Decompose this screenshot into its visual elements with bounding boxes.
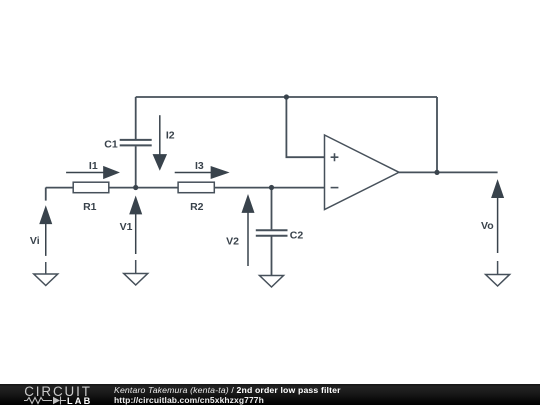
svg-text:C1: C1 [104,139,118,151]
svg-text:Vo: Vo [481,220,494,232]
svg-text:C2: C2 [290,230,304,242]
svg-text:V1: V1 [120,221,133,233]
svg-text:LAB: LAB [67,396,92,405]
svg-text:R1: R1 [83,201,97,213]
svg-text:Vi: Vi [30,235,40,247]
svg-text:I3: I3 [195,160,204,172]
svg-text:R2: R2 [190,201,204,213]
svg-text:V2: V2 [226,235,239,247]
svg-text:I2: I2 [166,129,175,141]
svg-text:I1: I1 [89,160,98,172]
